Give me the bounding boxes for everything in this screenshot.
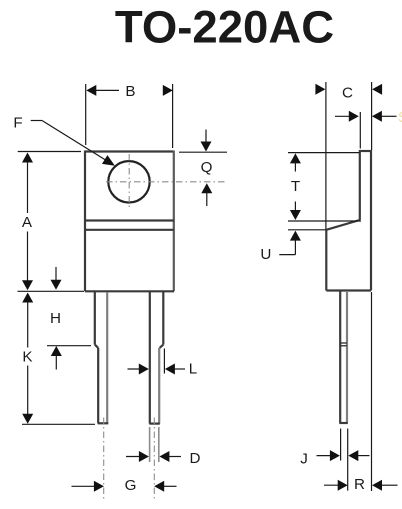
lead end centerline left — [103, 418, 105, 500]
dimension A — [18, 152, 81, 291]
dimension R — [324, 476, 398, 493]
svg-text:B: B — [125, 83, 135, 100]
side view package outline — [326, 150, 371, 291]
body bottom extension line — [18, 290, 85, 292]
dimension B — [86, 83, 173, 148]
title TO-220AC — [115, 2, 334, 53]
svg-text:R: R — [354, 476, 365, 493]
dimension U — [260, 230, 326, 263]
side view lead — [339, 291, 348, 423]
label F with leader — [13, 115, 115, 166]
hole horizontal centerline — [106, 181, 227, 183]
dimension Q — [179, 130, 227, 207]
dimension H — [47, 267, 91, 370]
dimension L — [128, 349, 198, 378]
J extension lines — [341, 429, 348, 491]
hole vertical centerline — [128, 154, 130, 210]
svg-text:K: K — [22, 349, 32, 366]
front view package body outline — [85, 151, 174, 292]
dimension D — [126, 450, 201, 467]
dimension T — [288, 153, 361, 221]
svg-text:L: L — [189, 361, 197, 378]
svg-text:A: A — [22, 214, 33, 231]
front view groove lines — [85, 221, 174, 230]
svg-text:U: U — [260, 246, 271, 263]
svg-text:J: J — [300, 451, 308, 468]
svg-text:C: C — [342, 84, 353, 101]
front view right lead — [149, 292, 163, 424]
dimension C — [315, 82, 382, 230]
svg-text:F: F — [13, 115, 22, 132]
svg-text:Q: Q — [201, 159, 213, 176]
svg-text:D: D — [190, 450, 201, 467]
dimension K — [22, 293, 95, 425]
svg-text:S: S — [398, 110, 402, 126]
front view left lead — [95, 292, 109, 423]
svg-text:G: G — [125, 477, 137, 494]
dimension S (cut off at edge) — [335, 110, 402, 149]
dimension G — [72, 477, 177, 494]
front view mounting hole — [108, 161, 149, 202]
svg-text:H: H — [50, 310, 61, 327]
lead end centerline right — [153, 418, 155, 500]
svg-text:T: T — [291, 178, 300, 195]
D extension lines — [150, 427, 159, 462]
dimension J — [300, 450, 369, 468]
R extension line — [371, 292, 373, 491]
svg-text:TO-220AC: TO-220AC — [115, 2, 334, 53]
